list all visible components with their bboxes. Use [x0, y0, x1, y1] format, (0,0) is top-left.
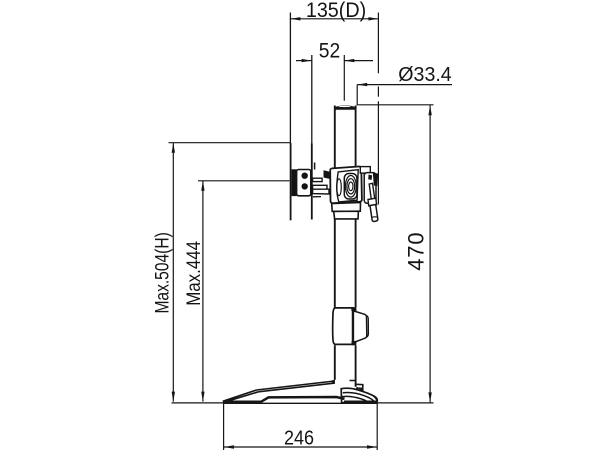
base pole notch — [330, 379, 335, 384]
cable clip top dark corner — [351, 307, 356, 311]
cable clip right knob — [353, 311, 366, 343]
hinge lower bar — [313, 189, 329, 194]
bracket hole upper — [302, 173, 308, 179]
pole right edge — [355, 106, 357, 387]
hinge upper arm — [313, 178, 323, 181]
hinge lower arm — [313, 185, 327, 189]
clamp ear plate — [364, 173, 376, 204]
floor line left — [172, 402, 223, 404]
clamp spool ellipse inner — [349, 182, 353, 191]
clamp spool ellipse outer — [345, 176, 356, 198]
pole left edge — [334, 106, 336, 380]
extension line 52 right (pole axis) — [343, 55, 345, 101]
clamp collar band 2 — [334, 211, 359, 219]
base top edge left band — [223, 390, 258, 401]
cable clip knob outer edge — [367, 316, 369, 338]
extension line bracket center — [198, 180, 290, 182]
latch foot toe arc — [373, 396, 376, 402]
latch foot inner curve 1 — [343, 393, 374, 401]
svg-text:246: 246 — [284, 427, 314, 449]
cable clip body — [333, 308, 353, 345]
mounting bracket block — [297, 170, 311, 196]
clamp left C ring — [337, 179, 342, 196]
cable clip right face line — [352, 308, 354, 344]
dimension Ø33.4 arrowhead — [357, 83, 367, 86]
clamp right inner edge — [363, 169, 365, 201]
dimension 246 line — [224, 446, 377, 448]
dimension 470 top arrowhead — [428, 105, 431, 115]
dimension 135(D) text — [306, 0, 366, 22]
dimension 52 right arrowhead — [344, 59, 354, 62]
dimension 470 line — [429, 105, 431, 402]
hinge dark lug — [324, 170, 332, 179]
cable clip bottom dark corner — [352, 341, 357, 346]
extension line 52 left (plate back face) — [311, 55, 313, 144]
dimension Max.444 top arrowhead — [201, 181, 204, 191]
bracket hole lower — [302, 183, 308, 189]
extension line plate top — [169, 142, 291, 144]
extension line left of 135(D) — [289, 13, 291, 144]
base bottom floor thick — [223, 402, 377, 404]
handle pivot dark strip — [373, 172, 378, 186]
hinge top pin — [314, 163, 316, 170]
extension line floor right — [377, 402, 433, 404]
svg-text:52: 52 — [319, 40, 340, 63]
handle knob — [370, 205, 378, 222]
VESA plate front face — [290, 143, 292, 220]
handle knob cap line — [372, 216, 378, 219]
clamp collar band 1 — [332, 202, 361, 211]
dimension 135(D) line — [290, 18, 378, 20]
handle lever — [369, 183, 375, 204]
svg-text:Max.444: Max.444 — [183, 241, 204, 306]
extension line 246 right — [376, 404, 378, 450]
extension line pole top level — [357, 104, 434, 106]
clamp body — [330, 166, 362, 203]
dimension Max.504(H) bottom arrowhead — [172, 392, 175, 402]
svg-text:Max.504(H): Max.504(H) — [151, 232, 173, 313]
dimension Max.444 bottom arrowhead — [201, 392, 204, 402]
dimension 135(D) right arrow — [368, 17, 378, 20]
extension line 246 left — [223, 404, 225, 450]
plate thick section — [292, 169, 297, 196]
svg-text:Ø33.4: Ø33.4 — [398, 64, 451, 86]
dimension Max.504(H) line — [172, 143, 174, 402]
dimension 52 left arrowhead — [302, 59, 312, 62]
latch foot inner curve 2 — [342, 396, 368, 402]
clamp spool ellipse mid — [347, 179, 355, 194]
VESA plate back face — [311, 144, 313, 220]
handle pivot dark wedge — [368, 175, 372, 181]
base latch foot — [341, 388, 377, 402]
dimension 246 right arrowhead — [367, 445, 377, 448]
dimension 470 bottom arrowhead — [428, 392, 431, 402]
hinge lower tick — [313, 196, 321, 198]
base outline — [223, 379, 364, 401]
base bottom foot segment — [344, 401, 377, 404]
handle joint — [368, 198, 377, 206]
dimension 52 left arrow line — [296, 60, 373, 62]
extension line right of 135(D) dashed — [377, 13, 379, 205]
clamp top tab — [360, 167, 370, 174]
base bottom edge — [223, 397, 345, 402]
dimension Max.504(H) top arrowhead — [172, 143, 175, 153]
dimension 246 left arrowhead — [224, 445, 234, 448]
svg-text:470: 470 — [404, 232, 429, 271]
dimension Max.444 line — [202, 181, 204, 402]
base top edge main — [257, 381, 335, 392]
clamp inner face — [337, 170, 358, 202]
pole top cap — [334, 105, 356, 109]
dimension Ø33.4 line — [357, 84, 452, 86]
clamp spool outline — [344, 174, 357, 200]
dimension 135(D) left arrow — [290, 17, 300, 20]
base right step shapes — [350, 381, 364, 391]
extension line Ø33.4 (pole right edge) — [356, 85, 358, 105]
